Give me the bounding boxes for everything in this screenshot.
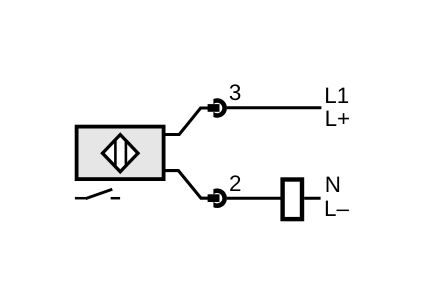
wire: pin 2 to load [227,197,281,200]
svg-text:2: 2 [229,171,241,196]
load [283,180,302,220]
connector pin 2 plug [208,194,220,202]
sensor body (proximity switch) [77,127,164,180]
wire: sensor output to pin 2 [165,171,209,199]
wire: pin 3 to L1/L+ [227,106,322,109]
wire: sensor output to pin 3 [165,108,209,135]
connector pin 2 socket [213,188,227,208]
connector pin 3 plug [208,104,220,112]
svg-text:N: N [325,172,341,197]
connector pin 3 socket [213,98,227,118]
sensor symbol: diamond with chords [103,135,139,172]
wire: load to N/L- [304,197,320,200]
NO contact switch [75,189,120,198]
svg-text:L–: L– [324,196,349,221]
svg-text:L1: L1 [324,83,349,108]
svg-text:3: 3 [229,80,241,105]
svg-text:L+: L+ [325,106,351,131]
